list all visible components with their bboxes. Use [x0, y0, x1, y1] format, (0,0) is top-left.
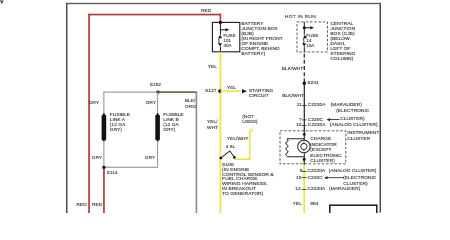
border frame top	[66, 3, 381, 4]
fusible link A bar	[102, 115, 107, 141]
node dot on BJB top	[219, 21, 222, 24]
label central junction box text	[330, 22, 355, 62]
label RED bottom 2	[92, 203, 102, 208]
label C220C row10	[308, 176, 323, 181]
connector tick 11 C2220A	[302, 104, 307, 106]
label instrument cluster	[347, 131, 379, 143]
label S231	[307, 81, 318, 86]
wire gray right vertical lower	[157, 141, 158, 167]
border frame right	[380, 3, 382, 213]
wire yellow horizontal to starting circuit	[220, 90, 241, 92]
wire BJB internal lower	[219, 47, 221, 52]
label C2220A row11	[308, 103, 326, 108]
label ELECTRONIC row10	[343, 176, 376, 181]
wire gray left vertical upper	[103, 92, 104, 115]
label GRY top left	[89, 101, 100, 106]
label C2220A row12	[308, 187, 326, 192]
connector tick 7 C220C	[302, 119, 307, 121]
corner mark	[0, 0, 4, 4]
fuse 14 symbol	[303, 35, 307, 38]
border frame left	[66, 3, 68, 213]
label MARAUDER row12	[329, 187, 360, 192]
label YEL at branch	[227, 86, 236, 91]
label STARTING CIRCUIT	[249, 90, 273, 99]
label ANALOG CLUSTER row10	[330, 123, 378, 128]
connector tick 9 C2220A	[302, 170, 307, 172]
wire red top horizontal	[88, 14, 221, 16]
black box bottom right	[330, 205, 377, 215]
splice S162 dot	[157, 91, 160, 94]
label ANALOG CLUSTER row9	[329, 169, 377, 174]
label NOT USED	[242, 115, 257, 126]
label pin 11	[297, 103, 302, 108]
splice S114 dot	[102, 166, 105, 169]
label pin 9	[300, 169, 303, 174]
arrow inside BJB	[220, 29, 226, 31]
wire BJB internal vertical	[219, 22, 221, 34]
connector tick 10 C220C	[302, 177, 307, 179]
label GRY bottom left	[92, 156, 103, 161]
label YEL/WHT branch	[227, 137, 249, 142]
label FUSE 14 10A	[306, 34, 318, 48]
resistor zigzag	[286, 139, 289, 155]
label FUSE 101 30A	[223, 34, 235, 48]
node dot in CJB	[303, 26, 306, 29]
label C2220A row10	[308, 123, 326, 128]
label C2220A row9	[308, 169, 326, 174]
charge indicator top rail	[287, 134, 304, 141]
label BLK/WHT lower	[282, 94, 304, 99]
wire black/orange vertical to bottom	[196, 91, 198, 213]
wire yellow main vertical (BJB to bottom)	[220, 52, 222, 213]
splice S106 V-branch	[221, 151, 235, 158]
wire yellow/white branch (not used)	[234, 131, 249, 160]
label HOT IN RUN	[285, 15, 316, 20]
arrow for 7 C220C row	[327, 118, 331, 121]
arrowhead entering charge indicator	[302, 134, 306, 137]
connector tick 12 C2220A	[302, 189, 307, 191]
wire gray top horizontal	[103, 92, 158, 93]
wire red left vertical	[88, 14, 90, 213]
charge indicator bottom rail	[287, 153, 304, 160]
label C220C row7	[308, 118, 323, 123]
instrument cluster dashed box	[280, 131, 346, 164]
label S106 and harness note	[222, 163, 274, 196]
label CLUSTER row10b	[343, 182, 367, 187]
fuse 101 symbol	[218, 35, 222, 38]
wire gray right vertical upper	[157, 92, 158, 115]
battery junction box BJB outline	[212, 22, 239, 51]
label 984	[310, 202, 318, 207]
charge indicator lamp inner circle	[301, 143, 307, 149]
label CLUSTER row7	[340, 117, 364, 122]
label S127	[205, 89, 216, 94]
CJB internal wire lower	[303, 47, 305, 52]
wire yellow 984 to bottom	[303, 165, 305, 214]
charge indicator lamp outer circle	[298, 140, 310, 152]
label RED bottom 1	[76, 203, 86, 208]
label YEL/WHT left of wire	[207, 120, 218, 132]
junction dot below lamp	[303, 158, 306, 161]
arrow for 10 C220C row	[324, 176, 328, 179]
label FUSIBLE LINK A	[110, 113, 130, 133]
wire black/white solid down to cluster	[303, 83, 305, 133]
label BLK/WHT upper	[282, 67, 304, 72]
arrow inside CJB	[304, 27, 310, 29]
wire red drop to battery junction box	[220, 14, 222, 23]
label pin 10	[296, 123, 301, 128]
label pin 7	[299, 118, 302, 123]
label S114	[107, 171, 118, 176]
label charge indicator	[310, 137, 342, 164]
label RED top	[201, 9, 211, 14]
wire black/white dashed segment	[303, 54, 305, 82]
wire exits cluster box	[303, 159, 305, 165]
label GRY bottom right	[145, 156, 156, 161]
label ELECTRONIC row	[336, 109, 369, 114]
CJB internal wire	[303, 22, 305, 35]
central junction box dashed outline	[297, 22, 327, 52]
label BLK/ORG	[185, 99, 196, 110]
wire gray left vertical lower	[103, 141, 104, 167]
label pin 12	[295, 187, 300, 192]
splice S127 dot	[218, 89, 221, 92]
label S162	[150, 83, 161, 88]
wire red from S114 to bottom	[103, 169, 105, 213]
label MARAUDER row11	[331, 103, 362, 108]
wire gray bottom horizontal	[103, 167, 158, 168]
label 4 6L	[226, 145, 236, 150]
wire black/orange horizontal from S162	[158, 91, 197, 93]
hook open end of not-used stub	[250, 129, 253, 131]
fusible link B bar	[155, 115, 160, 141]
arrow to starting circuit	[242, 89, 247, 93]
splice S231 dot	[303, 82, 306, 85]
label battery junction box text	[241, 22, 282, 57]
label FUSIBLE LINK B	[163, 113, 183, 133]
label YEL bottom	[293, 202, 302, 207]
label pin 10 lower	[296, 176, 301, 181]
label YEL upper	[208, 65, 217, 70]
label GRY top right	[146, 101, 157, 106]
connector tick 10 C2220A	[302, 124, 307, 126]
